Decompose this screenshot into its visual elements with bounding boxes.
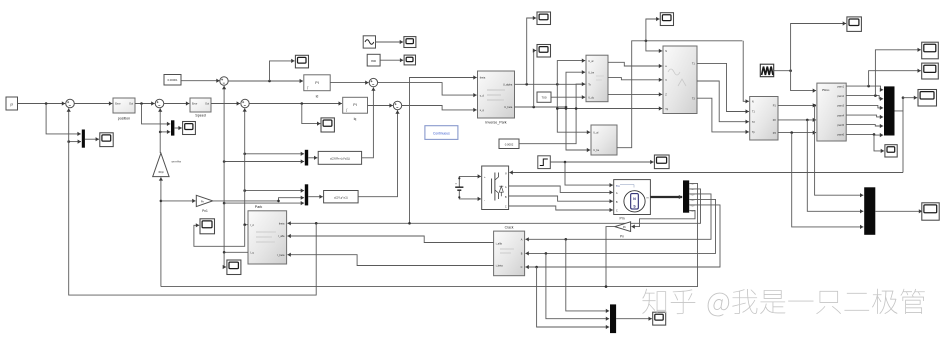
- wire wm feedback up into gain 30/pi: [159, 177, 163, 286]
- svg-text:0.00001: 0.00001: [167, 78, 178, 82]
- subsystem SVPWM: [586, 55, 608, 101]
- junction node id tap M3: [243, 153, 246, 156]
- wire phase B inverter to motor: [509, 196, 613, 203]
- wire sum4 to PI Iq controller: [249, 101, 342, 105]
- junction node pulse distribution: [789, 69, 792, 72]
- svg-text:Pn1: Pn1: [202, 209, 208, 213]
- junction node on Pn1 output: [277, 200, 280, 203]
- svg-text:PWms: PWms: [822, 89, 830, 92]
- wire ia signal down to Clark A: [525, 194, 711, 242]
- pulse generator (triangle carrier): [760, 64, 773, 77]
- svg-text:Id: Id: [316, 95, 319, 99]
- scope SPk1 (Id scope): [200, 219, 215, 234]
- wire branch down to mux M2 input 1: [142, 104, 171, 127]
- svg-text:N: N: [752, 101, 754, 104]
- svg-text:800: 800: [371, 59, 376, 63]
- constant 0.0002 (sample time): [499, 139, 519, 149]
- junction node iq tap M3: [223, 160, 226, 163]
- label Park: [255, 205, 263, 209]
- junction nodes on Tcalc in5 line: [556, 107, 577, 110]
- wire phase C inverter to motor: [509, 206, 613, 212]
- port labels Speed block: [192, 102, 209, 117]
- function block Fcn2: [324, 191, 359, 203]
- wire 0.00001 to sum3: [181, 79, 220, 83]
- wire phase mux to scope R5: [875, 209, 922, 213]
- svg-text:Continuous: Continuous: [433, 131, 450, 135]
- mux phase PWM display: [864, 187, 875, 235]
- svg-text:i_alfa: i_alfa: [495, 243, 502, 246]
- wire sum2 to Speed controller: [164, 101, 190, 105]
- interior sketch Inverse_Park: [487, 90, 505, 100]
- wire theta branch to position feedback: [67, 108, 317, 295]
- svg-text:Speed: Speed: [195, 114, 205, 118]
- svg-text:0.0002: 0.0002: [505, 142, 514, 146]
- junction node Pn out on wm line: [605, 285, 608, 288]
- watermark text zhihu: [642, 289, 925, 317]
- wire PI Iq to sum6: [368, 103, 393, 107]
- scope SC3a (id scope): [295, 55, 308, 68]
- mux M2 (speed display mux): [171, 120, 174, 135]
- wire pulse up to scope S850: [791, 21, 847, 70]
- svg-text:position: position: [118, 117, 130, 121]
- svg-text:I_q: I_q: [250, 252, 254, 255]
- svg-text:U_al: U_al: [593, 131, 599, 134]
- wire pwm1 to gate mux: [846, 86, 883, 92]
- subsystem sector calc: [591, 125, 617, 155]
- wire step branch to motor Tm: [565, 162, 613, 187]
- wire pwm3 to gate mux: [846, 105, 883, 110]
- sum junction S3 (id error): [220, 77, 228, 85]
- wire ic signal down to Clark C: [525, 205, 720, 269]
- wire P3 tap down to phase mux: [792, 133, 864, 229]
- wire Park Id feedback up to sum4: [243, 108, 248, 225]
- wire theta into Park: [287, 221, 290, 225]
- sum junction S6 (uq decoupling): [393, 101, 401, 109]
- wire sum6 to Inverse Park u_q: [402, 106, 477, 113]
- svg-text:U_dc: U_dc: [588, 96, 595, 99]
- PMSM motor block: [614, 180, 651, 221]
- scope R4 (pwm scope 4): [885, 145, 897, 157]
- wire SVPWM out3 to Tcalc in4: [608, 92, 662, 96]
- wire 700 to SVPWM Udc: [551, 95, 585, 99]
- wire U_alpha up into SVPWM input: [557, 59, 585, 85]
- wire pwm1 tap up to scope R2: [869, 69, 921, 87]
- wire current mux to scope: [616, 317, 652, 321]
- bus selector (motor measurements): [683, 180, 689, 212]
- junction node to scope SC3b: [301, 102, 304, 105]
- interior sketch Park: [256, 232, 276, 242]
- wire P2 to PWM gen: [778, 118, 816, 122]
- inverter block (universal bridge): [482, 166, 509, 210]
- junction node to scope SC3a: [268, 80, 271, 83]
- wire gate tap to scope R3: [903, 96, 917, 111]
- wire SVPWM out2 to Tcalc in3: [608, 78, 662, 82]
- junction nodes DC source: [458, 177, 460, 198]
- junction node P2 tap: [806, 119, 809, 122]
- svg-text:u(2)*Lq*u(1): u(2)*Lq*u(1): [334, 196, 348, 200]
- svg-text:U_be: U_be: [593, 149, 600, 152]
- junction node U_alpha to SVPWM: [556, 83, 559, 86]
- scope R2 (pwm scope 2): [922, 63, 939, 79]
- junction node on position feedback: [67, 140, 70, 143]
- wire Pn1 out to mux M4 input 2: [213, 196, 304, 201]
- scope 800: [404, 55, 415, 65]
- wire step output: [550, 160, 653, 164]
- scope Sstep (torque scope): [654, 155, 669, 169]
- scope Sabc (phase currents scope): [653, 312, 666, 325]
- constant 800: [367, 54, 380, 66]
- svg-text:m: m: [647, 197, 649, 199]
- wire U_alpha to scope SU1: [527, 16, 537, 84]
- svg-text:30/pi: 30/pi: [158, 171, 164, 174]
- labels PI Iq: [346, 103, 357, 121]
- wire P2 tap down to phase mux: [807, 120, 863, 213]
- constant 700 (DC voltage value): [537, 92, 551, 102]
- svg-text:C: C: [521, 266, 523, 269]
- wire id tap to mux M4 input 1: [245, 189, 304, 193]
- wire pulse gen output: [773, 70, 790, 72]
- wire sum5 to Inverse Park u_d: [378, 83, 477, 98]
- wire branch down to scope SC3b: [302, 104, 321, 126]
- bus wire motor m to bus selector: [650, 195, 682, 199]
- scope SC1 (position scope): [100, 133, 113, 147]
- wire phase A inverter to motor: [509, 186, 613, 195]
- svg-text:700: 700: [541, 96, 546, 100]
- wire Tpwm line down to compare in1: [743, 41, 749, 104]
- interior sketch Clark: [500, 249, 514, 253]
- wire U_beta up into SVPWM input: [566, 70, 585, 107]
- wire U_beta from Inverse Park: [515, 106, 567, 108]
- step block (load torque): [538, 156, 551, 169]
- junction node after position block: [140, 102, 143, 105]
- wire T2 to compare in3: [697, 81, 749, 124]
- wire T1 to compare in2: [697, 63, 749, 113]
- wire iq tap to mux M4 input 3: [224, 201, 304, 205]
- constant source block pi (position reference): [6, 97, 18, 110]
- junction node on ref wire: [45, 102, 48, 105]
- svg-text:Pn: Pn: [623, 225, 627, 229]
- svg-text:pwm5: pwm5: [837, 124, 844, 127]
- scope S660 (sector scope): [660, 13, 673, 26]
- label PWM generator: [822, 89, 830, 92]
- svg-text:Out: Out: [205, 102, 209, 105]
- mux M4 (decoupling mux q): [305, 184, 308, 205]
- wire id tap to mux M3 input 1: [245, 152, 304, 156]
- wire pulse down to PWM gen in1: [791, 71, 817, 93]
- wire ic tap down to current mux: [537, 267, 610, 329]
- wire Speed out to sum4: [211, 101, 240, 105]
- svg-text:pwm4: pwm4: [837, 114, 844, 117]
- subsystem PWM generator: [817, 83, 846, 141]
- wire mux M3 to Fcn1: [308, 156, 317, 160]
- gain Pn (left pointing, pole pairs): [615, 222, 631, 239]
- subsystem position (position PID controller): [113, 98, 135, 113]
- wire U_alpha down to theta calc block: [557, 84, 590, 134]
- junction node P1 tap: [813, 104, 816, 107]
- wire P1 tap down to phase mux: [815, 105, 864, 197]
- wire pwm4 to gate mux: [846, 115, 883, 119]
- subsystem Clark: [494, 231, 525, 276]
- svg-text:U_al: U_al: [588, 60, 594, 63]
- svg-text:PI: PI: [315, 81, 318, 85]
- svg-text:theta: theta: [279, 223, 285, 226]
- scope S850 (carrier scope): [847, 17, 862, 32]
- svg-text:U_alpha: U_alpha: [503, 84, 513, 87]
- junction node ic tap to current mux: [535, 266, 538, 269]
- junction node iq tap M4: [223, 202, 226, 205]
- PI controller Iq: [343, 97, 368, 113]
- junction node P3 tap: [790, 131, 793, 134]
- wire sum3 to PI Id controller: [228, 79, 303, 83]
- wire pwm5 to gate mux: [846, 124, 883, 128]
- wire sector calc out up to compare Tpwm line: [617, 41, 742, 148]
- svg-text:theta: theta: [480, 77, 486, 80]
- junction node wm to Pn1 gain: [160, 200, 163, 203]
- wire ia tap down to current mux: [566, 239, 609, 313]
- svg-text:-: -: [484, 199, 485, 203]
- subsystem compare (duty compare): [750, 97, 778, 141]
- scope SC2 (speed scope): [183, 122, 196, 135]
- wire bus line into Tcalc in5: [557, 106, 662, 110]
- wire theta_m signal down: [290, 189, 701, 223]
- wire P3 to PWM gen: [778, 131, 816, 135]
- subsystem Inverse_Park: [478, 71, 515, 118]
- wire position out to sum2: [135, 101, 155, 105]
- junction node pwm2 scope tap: [874, 94, 877, 97]
- sum junction S1 (position error): [66, 99, 75, 108]
- wire branch up to scope SC3a: [270, 59, 295, 81]
- constant 0.00001 (d-axis current reference): [164, 75, 181, 86]
- wire U_alpha from Inverse Park: [515, 83, 586, 85]
- wire theta feedback up into Inverse Park: [410, 75, 477, 223]
- wire Tpwm branch up to scope S660: [646, 17, 660, 41]
- svg-text:I_d: I_d: [250, 224, 254, 227]
- wire pwm2 tap up to scope R1: [875, 48, 921, 96]
- junction node step to Tm: [564, 161, 567, 164]
- wire T3 to compare in4: [697, 98, 749, 134]
- svg-text:Tm: Tm: [616, 184, 620, 188]
- svg-text:pwm6: pwm6: [837, 134, 844, 137]
- scope sine: [404, 37, 416, 48]
- junction node theta to position fb: [315, 222, 318, 225]
- wire P1 to PWM gen: [778, 103, 816, 107]
- wire Clark i_beta to Park: [287, 253, 493, 266]
- interior sketch Tcalc: [668, 69, 686, 86]
- gain Pn1 (pole pairs): [196, 195, 212, 213]
- labels PI Id: [307, 81, 319, 99]
- junction node id tap M4: [243, 189, 246, 192]
- wire pi ref to sum1: [18, 101, 66, 105]
- subsystem Park: [248, 211, 287, 264]
- svg-text:u(2)*(Rs+Ld*u(1)): u(2)*(Rs+Ld*u(1)): [330, 157, 350, 161]
- svg-text:u_d: u_d: [480, 94, 485, 97]
- wire mux M1 to scope SC1: [85, 137, 99, 141]
- svg-text:Error: Error: [115, 103, 121, 106]
- junction node pwm1 scope tap: [867, 85, 870, 88]
- port labels position block: [115, 103, 133, 121]
- wire feedback tap to mux M1 input 2: [69, 140, 81, 144]
- wire DC- to inverter: [459, 191, 481, 201]
- mux current display: [610, 304, 616, 333]
- wire wm signal to feedback line: [161, 183, 698, 286]
- subsystem Tcalc (duty time calculation): [663, 46, 697, 114]
- svg-text:Inverse_Park: Inverse_Park: [485, 121, 506, 125]
- wire iq tap to mux M3 input 2: [224, 159, 304, 163]
- svg-text:Iq: Iq: [354, 117, 357, 121]
- wire ref branch down to mux M1: [46, 104, 81, 137]
- sum junction S2 (speed error): [155, 99, 164, 108]
- wire mux M2 to scope SC2: [175, 126, 182, 130]
- wire gate mux output to g line: [895, 111, 904, 173]
- gain 30/pi (rad/s to rpm): [153, 153, 181, 177]
- junction node U_beta scope tap: [532, 106, 535, 109]
- junction node theta to Inverse Park: [408, 222, 411, 225]
- scope SU1 (U_alpha scope): [537, 12, 551, 25]
- svg-text:u_q: u_q: [480, 109, 485, 112]
- wire SVPWM out1 to Tcalc in2: [608, 62, 662, 68]
- wire Id branch loop to scope SPk1: [194, 223, 245, 246]
- junction node on speed feedback vertical: [159, 131, 162, 134]
- scope SC3b (iq scope): [321, 118, 334, 132]
- scope R3 (gate scope): [918, 90, 937, 107]
- scope SU2 (U_beta scope): [537, 45, 551, 58]
- wire ib signal down to Clark B: [525, 199, 715, 255]
- wire pwm6 to gate mux: [846, 133, 883, 137]
- junction node ib tap to current mux: [545, 252, 548, 255]
- label Inverse_Park: [485, 121, 506, 125]
- junction node ia tap to current mux: [565, 238, 568, 241]
- wire pwm6 tap down to scope R4: [874, 134, 884, 153]
- sum junction S5 (ud decoupling): [369, 78, 377, 86]
- interior sketch SVPWM: [596, 76, 604, 80]
- sine wave source: [363, 36, 375, 48]
- junction node U_beta to SVPWM: [565, 106, 568, 109]
- svg-text:Pn: Pn: [620, 235, 624, 239]
- wire U_beta down to theta calc block: [566, 107, 590, 152]
- scope SPk2 (Iq scope): [227, 260, 241, 275]
- wire pwm2 to gate mux: [846, 96, 883, 101]
- svg-text:wm-rHw: wm-rHw: [172, 160, 182, 164]
- svg-text:pwm1: pwm1: [837, 85, 844, 88]
- wire g line to inverter gate: [509, 170, 903, 174]
- junction node pwm6 scope tap: [873, 133, 876, 136]
- wire Fcn1 up to sum5 feedback: [362, 87, 376, 157]
- svg-text:N: N: [665, 50, 667, 53]
- subsystem Speed (speed PID controller): [190, 98, 211, 112]
- junction node Id wire: [243, 223, 246, 226]
- wire Clark i_alfa to Park: [287, 234, 493, 243]
- wire 0.0002 to SVPWM Ts: [519, 82, 585, 144]
- wire sum1 to position controller: [75, 101, 113, 105]
- wire Fcn2 up to sum6 feedback: [358, 110, 400, 196]
- wire gain 30/pi up to sum2 feedback: [158, 108, 162, 153]
- svg-text:+: +: [455, 182, 457, 186]
- powergui block Continuous: [425, 126, 458, 140]
- mux gate signals: [884, 86, 895, 135]
- wire Tpwm branch down to Tcalc in1: [646, 41, 662, 53]
- scope R1 (pwm scope 1): [922, 42, 939, 59]
- bus selector signal labels: [691, 183, 696, 214]
- svg-text:U_be: U_be: [588, 71, 595, 74]
- wire speed feedback tap to mux M2 input 2: [160, 130, 170, 134]
- svg-text:PI: PI: [353, 103, 356, 107]
- wire DC+ to inverter: [459, 174, 481, 186]
- label Clark: [505, 225, 514, 229]
- svg-text:pwm2: pwm2: [837, 95, 844, 98]
- wire sine to scope: [376, 40, 404, 44]
- svg-text:pi: pi: [10, 103, 13, 107]
- svg-text:pwm3: pwm3: [837, 105, 844, 108]
- junction node Iq wire: [223, 251, 226, 254]
- svg-text:I_beta: I_beta: [277, 254, 285, 257]
- DC voltage source: [455, 182, 463, 191]
- svg-text:Crack: Crack: [505, 225, 514, 229]
- wire ib tap down to current mux: [546, 253, 609, 320]
- wire mux M4 to Fcn2: [308, 195, 323, 199]
- junction node gate line to scope R3: [902, 96, 905, 99]
- svg-text:Pm: Pm: [619, 217, 624, 221]
- wire signal to Pn gain (left): [631, 210, 695, 228]
- mux M1 (position display mux): [82, 130, 85, 148]
- svg-text:I_alfa: I_alfa: [278, 235, 285, 238]
- wire Park Iq feedback up to sum3: [222, 86, 248, 253]
- svg-text:i_beta: i_beta: [495, 265, 503, 268]
- sum junction S4 (iq error): [241, 99, 249, 107]
- wire wm tap to gain Pn1: [161, 199, 196, 203]
- wire Pn gain out joins wm line: [606, 227, 615, 287]
- function block Fcn1: [318, 151, 361, 164]
- svg-text:Park: Park: [255, 205, 263, 209]
- svg-text:Pn: Pn: [201, 199, 205, 203]
- junction node Tpwm to scope: [645, 40, 648, 43]
- scope R5 (phase PWM scope): [922, 203, 939, 220]
- junction node U_alpha scope tap: [525, 83, 528, 86]
- wire PI Id to sum5: [330, 81, 368, 85]
- svg-text:U_beta: U_beta: [504, 106, 513, 109]
- mux M3 (decoupling mux d): [305, 150, 308, 166]
- svg-text:Error: Error: [192, 102, 198, 105]
- wire 800 to scope: [380, 58, 403, 62]
- svg-text:Out: Out: [129, 103, 133, 106]
- PI controller Id: [304, 75, 330, 91]
- wire U_beta to scope SU2: [533, 48, 536, 107]
- wire Iq branch down to scope SPk2: [223, 252, 226, 269]
